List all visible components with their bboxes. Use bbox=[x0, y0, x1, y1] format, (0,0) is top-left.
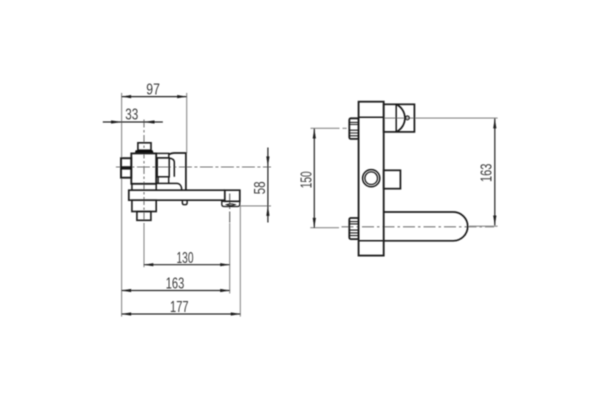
valve centerline extension down bbox=[143, 224, 145, 267]
body column bbox=[359, 102, 384, 256]
spout nozzle bbox=[225, 190, 240, 201]
svg-text:150: 150 bbox=[299, 171, 316, 188]
aerator vertical centerline bbox=[229, 194, 231, 224]
dimension 33 line bbox=[103, 121, 163, 123]
wall hex nut bbox=[121, 158, 131, 178]
bottom mounting nut bbox=[349, 218, 358, 239]
dimension 177 line bbox=[122, 313, 241, 315]
aerator lens bbox=[226, 204, 235, 206]
bottom nut serrations bbox=[349, 222, 358, 236]
svg-text:97: 97 bbox=[146, 82, 160, 99]
bottom step 1 bbox=[132, 200, 156, 211]
bottom step 2 bbox=[137, 212, 151, 221]
handle screw circle bbox=[406, 116, 410, 120]
handle chord line bbox=[395, 104, 397, 132]
valve horizontal centerline / 58 top extension bbox=[116, 166, 271, 168]
column joint line bbox=[359, 116, 384, 118]
black collar band bbox=[135, 150, 154, 153]
handle lever bbox=[169, 153, 186, 190]
svg-text:130: 130 bbox=[177, 250, 194, 267]
cartridge collar band bbox=[156, 153, 169, 158]
dimension 97 line bbox=[122, 96, 187, 98]
58 bottom extension line bbox=[240, 205, 271, 207]
spout band bbox=[129, 190, 225, 200]
163 top extension line bbox=[384, 117, 498, 119]
dimension 130 line bbox=[144, 264, 230, 266]
svg-text:177: 177 bbox=[170, 299, 189, 316]
svg-text:163: 163 bbox=[166, 276, 185, 293]
cartridge neck bbox=[158, 177, 169, 184]
diverter tab under spout bbox=[182, 200, 187, 205]
main valve body bbox=[131, 153, 156, 183]
150 top extension line bbox=[311, 127, 347, 129]
spout tip extension line bbox=[239, 206, 241, 316]
handle arc bbox=[396, 104, 405, 132]
spout bottom through column bbox=[359, 240, 384, 242]
aerator centerline extension down bbox=[229, 223, 231, 294]
top nut serrations bbox=[349, 122, 358, 135]
spout dash-dot centerline bbox=[342, 226, 495, 228]
dimension 163 right line bbox=[494, 118, 496, 225]
spout front bbox=[384, 212, 468, 241]
150 bottom extension line bbox=[310, 227, 339, 229]
svg-text:58: 58 bbox=[252, 181, 269, 194]
dimension 163 line bbox=[122, 290, 230, 292]
handle left edge bbox=[169, 158, 174, 177]
diverter inner circle bbox=[365, 172, 378, 185]
cartridge body bbox=[157, 158, 169, 177]
faucet body side: top cap bbox=[138, 143, 151, 150]
svg-text:33: 33 bbox=[125, 107, 138, 124]
svg-text:163: 163 bbox=[479, 164, 496, 183]
connector under body bbox=[132, 184, 156, 190]
aerator bbox=[222, 201, 240, 206]
diverter outer circle bbox=[363, 170, 380, 187]
wall extension line bbox=[121, 93, 123, 317]
dimension 150 line bbox=[313, 129, 315, 228]
163 bottom extension line bbox=[469, 225, 498, 227]
top mounting nut bbox=[349, 118, 358, 139]
valve vertical centerline bbox=[143, 120, 145, 225]
97 right extension line bbox=[186, 93, 188, 153]
handle base plate bbox=[156, 183, 181, 190]
dimension 58 line bbox=[267, 148, 269, 223]
side outlet rect bbox=[384, 170, 401, 188]
nut facet band bbox=[121, 166, 131, 169]
handle block bbox=[384, 104, 415, 132]
